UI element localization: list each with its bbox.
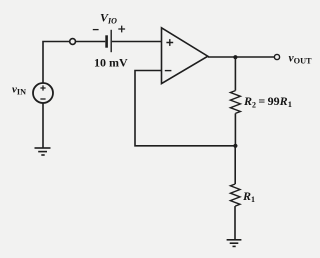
wire — [43, 42, 69, 84]
ground — [227, 240, 242, 247]
resistor R2 — [230, 91, 240, 114]
svg-text:vIN: vIN — [12, 84, 26, 97]
battery plus sign — [118, 26, 125, 33]
wire — [112, 41, 162, 43]
wire — [234, 206, 236, 240]
svg-text:vOUT: vOUT — [289, 53, 313, 66]
svg-text:R2 = 99R1: R2 = 99R1 — [243, 94, 292, 109]
battery VIO positive plate — [110, 30, 112, 52]
terminal vOUT — [274, 54, 279, 59]
node output junction — [233, 55, 237, 59]
terminal — [70, 39, 76, 45]
op-amp U1 — [162, 28, 208, 84]
battery minus sign — [93, 29, 99, 31]
wire — [76, 41, 106, 43]
svg-text:R1: R1 — [242, 189, 255, 204]
svg-text:VIO: VIO — [100, 10, 117, 25]
ground — [35, 148, 51, 155]
wire — [234, 57, 236, 90]
wire — [234, 113, 236, 145]
voltage source VIN — [33, 83, 53, 103]
svg-text:10 mV: 10 mV — [94, 55, 128, 69]
node feedback junction — [233, 144, 237, 148]
wire — [135, 71, 235, 146]
wire — [234, 146, 236, 184]
wire — [208, 56, 274, 58]
resistor R1 — [230, 184, 240, 206]
battery VIO negative plate — [105, 35, 108, 47]
wire — [42, 103, 44, 148]
